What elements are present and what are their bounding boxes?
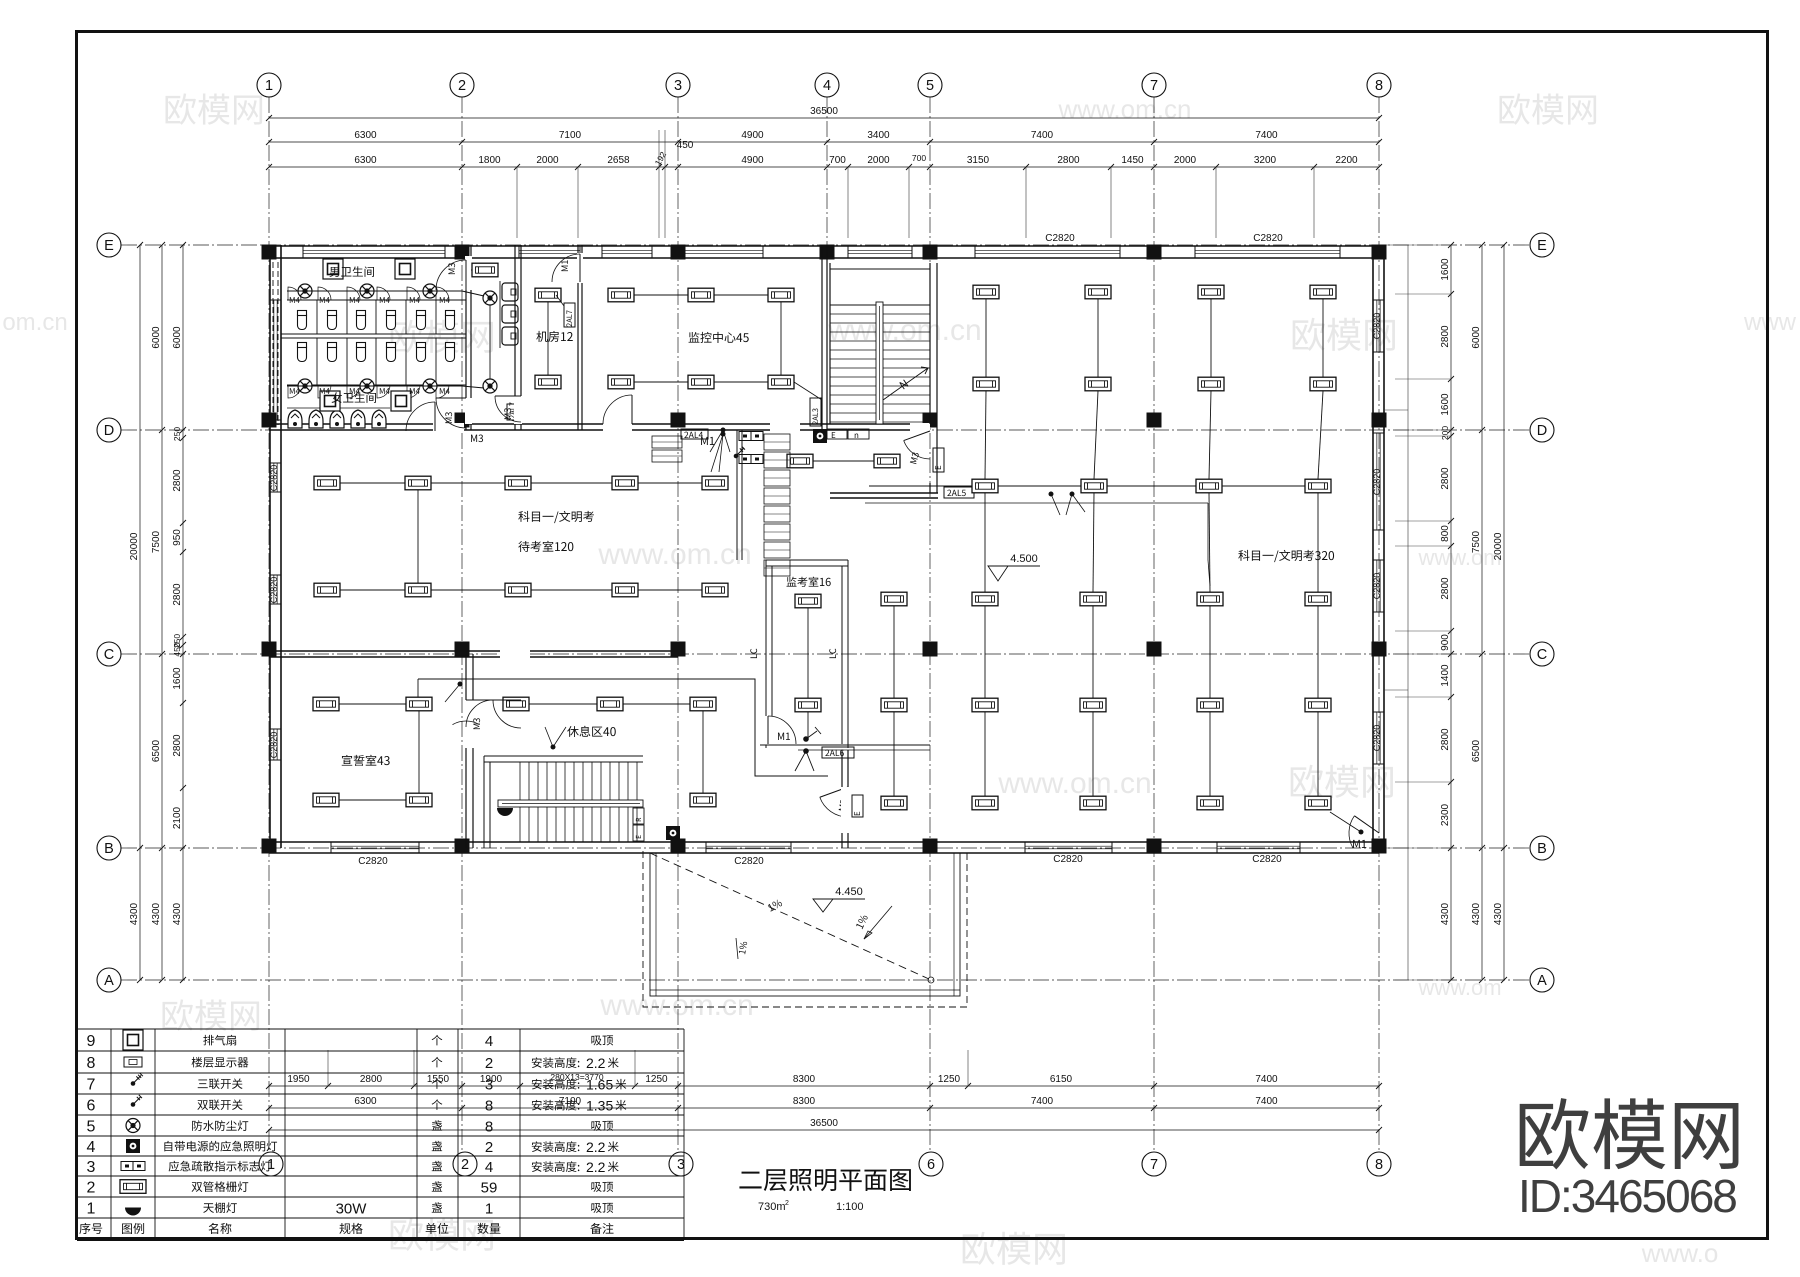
svg-text:C2820: C2820: [269, 465, 279, 492]
svg-text:6300: 6300: [354, 155, 377, 166]
svg-text:www: www: [1743, 309, 1797, 336]
svg-text:2: 2: [87, 1180, 96, 1197]
svg-text:6000: 6000: [1471, 326, 1482, 349]
dimension chains: [269, 117, 1379, 119]
svg-text:5: 5: [87, 1119, 96, 1136]
svg-text:C2820: C2820: [1372, 573, 1382, 600]
svg-text:B: B: [1537, 841, 1547, 857]
svg-text:1: 1: [87, 1201, 96, 1218]
svg-text:www.om: www.om: [1417, 545, 1501, 570]
svg-text:7500: 7500: [1471, 530, 1482, 553]
svg-text:7400: 7400: [1255, 1096, 1278, 1107]
svg-text:2: 2: [485, 1055, 493, 1072]
svg-text:2200: 2200: [1335, 155, 1358, 166]
svg-text:800: 800: [1440, 525, 1451, 542]
svg-text:2800: 2800: [1057, 155, 1080, 166]
svg-text:4900: 4900: [741, 155, 764, 166]
svg-text:7: 7: [87, 1077, 96, 1094]
svg-text:7500: 7500: [151, 530, 162, 553]
svg-text:2658: 2658: [607, 155, 630, 166]
svg-text:1250: 1250: [938, 1074, 961, 1085]
svg-text:www.o: www.o: [1641, 1238, 1719, 1268]
svg-text:D: D: [104, 423, 114, 439]
structural columns: [262, 245, 277, 260]
svg-text:8: 8: [485, 1119, 493, 1136]
hatched wall blocks near axis 3: [652, 436, 682, 448]
svg-text:2800: 2800: [172, 583, 183, 606]
svg-text:www.om.cn: www.om.cn: [599, 989, 753, 1022]
svg-text:6000: 6000: [172, 326, 183, 349]
svg-text:7400: 7400: [1031, 1096, 1054, 1107]
legend table (fixture schedule): [77, 1028, 684, 1030]
svg-text:2800: 2800: [1440, 467, 1451, 490]
svg-text:3: 3: [674, 78, 682, 94]
svg-text:1600: 1600: [1440, 393, 1451, 416]
svg-text:4300: 4300: [172, 902, 183, 925]
svg-text:2800: 2800: [1440, 728, 1451, 751]
svg-text:2: 2: [458, 78, 466, 94]
svg-text:4300: 4300: [1471, 902, 1482, 925]
svg-text:4900: 4900: [741, 130, 764, 141]
site watermark and ID: [1520, 1098, 1739, 1169]
monitoring center 45: [821, 245, 823, 430]
svg-text:6: 6: [927, 1157, 935, 1173]
svg-text:1.65: 1.65: [586, 1077, 613, 1093]
oath room 43 and rest area 40: [465, 654, 467, 848]
svg-text:C2820: C2820: [1372, 725, 1382, 752]
drawing title: [739, 1169, 911, 1191]
svg-text:2.2: 2.2: [586, 1159, 606, 1175]
svg-text:C: C: [104, 647, 114, 663]
svg-text:C2820: C2820: [1045, 233, 1075, 244]
svg-text:6500: 6500: [151, 739, 162, 762]
svg-text:2: 2: [461, 1157, 469, 1173]
svg-text:3: 3: [87, 1159, 96, 1176]
svg-text:9: 9: [87, 1033, 96, 1050]
svg-text:6: 6: [87, 1098, 96, 1115]
svg-text:6300: 6300: [354, 1096, 377, 1107]
svg-text:8: 8: [87, 1055, 96, 1072]
svg-text:4300: 4300: [1440, 902, 1451, 925]
svg-text:700: 700: [912, 153, 926, 163]
svg-text:4: 4: [485, 1159, 493, 1176]
svg-text:1:100: 1:100: [836, 1201, 864, 1213]
svg-text:5: 5: [926, 78, 934, 94]
svg-text:4.500: 4.500: [1010, 553, 1038, 565]
svg-text:8: 8: [1375, 1157, 1383, 1173]
svg-text:C2820: C2820: [1253, 233, 1283, 244]
svg-text:1: 1: [485, 1201, 493, 1218]
svg-text:D: D: [1537, 423, 1547, 439]
waiting room 120: [518, 511, 594, 523]
svg-text:1250: 1250: [645, 1074, 668, 1085]
svg-text:www.om.cn: www.om.cn: [597, 538, 751, 571]
wall along axis C: [269, 650, 678, 652]
corridor lights, exit signs, panel 2AL4: [787, 454, 813, 468]
svg-text:2300: 2300: [1440, 803, 1451, 826]
svg-text:1800: 1800: [478, 155, 501, 166]
svg-text:A: A: [1537, 973, 1547, 989]
svg-text:2800: 2800: [1440, 325, 1451, 348]
svg-text:20000: 20000: [129, 532, 140, 560]
svg-text:2000: 2000: [536, 155, 559, 166]
svg-text:20000: 20000: [1493, 532, 1504, 560]
svg-text:7400: 7400: [1255, 1074, 1278, 1085]
svg-text:8300: 8300: [793, 1096, 816, 1107]
svg-text:2: 2: [485, 1139, 493, 1156]
svg-text:7100: 7100: [559, 130, 582, 141]
svg-text:2100: 2100: [172, 806, 183, 829]
svg-text:2800: 2800: [1440, 577, 1451, 600]
svg-text:4: 4: [485, 1033, 493, 1050]
svg-text:4300: 4300: [151, 902, 162, 925]
svg-text:2000: 2000: [1174, 155, 1197, 166]
svg-text:4: 4: [823, 78, 831, 94]
svg-text:730m: 730m: [758, 1201, 786, 1213]
svg-text:36500: 36500: [810, 106, 838, 117]
svg-text:2.2: 2.2: [586, 1055, 606, 1071]
svg-text:200: 200: [1440, 426, 1450, 440]
svg-text:C2820: C2820: [1372, 313, 1382, 340]
svg-text:3200: 3200: [1254, 155, 1277, 166]
svg-text:8: 8: [1375, 78, 1383, 94]
svg-text:2: 2: [785, 1200, 789, 1207]
svg-text:1400: 1400: [1440, 664, 1451, 687]
toilet block (men/women washrooms): [465, 245, 467, 430]
svg-text:2.2: 2.2: [586, 1139, 606, 1155]
svg-text:30W: 30W: [336, 1201, 368, 1218]
svg-text:2800: 2800: [360, 1074, 383, 1085]
svg-text:7400: 7400: [1255, 130, 1278, 141]
svg-text:1600: 1600: [1440, 258, 1451, 281]
svg-text:7: 7: [1150, 1157, 1158, 1173]
svg-text:www.om.cn: www.om.cn: [1058, 94, 1192, 124]
svg-text:8: 8: [485, 1098, 493, 1115]
svg-text:E: E: [1537, 238, 1547, 254]
svg-text:3: 3: [485, 1077, 493, 1094]
svg-text:4300: 4300: [129, 902, 140, 925]
svg-text:1950: 1950: [287, 1074, 310, 1085]
svg-text:www.om.cn: www.om.cn: [827, 314, 981, 347]
svg-text:950: 950: [172, 529, 183, 546]
structural grid axis lines: [268, 97, 270, 1151]
svg-text:B: B: [104, 841, 114, 857]
axis bubbles 1-8 / A-E: [257, 73, 281, 97]
svg-text:om.cn: om.cn: [2, 309, 67, 336]
svg-text:E: E: [104, 238, 114, 254]
svg-text:C2820: C2820: [269, 577, 279, 604]
svg-text:C2820: C2820: [358, 856, 388, 867]
svg-text:6500: 6500: [1471, 739, 1482, 762]
svg-text:6000: 6000: [151, 326, 162, 349]
svg-text:1.35: 1.35: [586, 1098, 613, 1114]
svg-text:450: 450: [677, 140, 694, 151]
svg-text:2000: 2000: [867, 155, 890, 166]
svg-text:A: A: [104, 973, 114, 989]
svg-text:4: 4: [87, 1139, 96, 1156]
svg-text:59: 59: [481, 1180, 498, 1197]
corridor wall on axis D: [269, 423, 930, 425]
svg-text:www.om: www.om: [1417, 975, 1501, 1000]
svg-text:700: 700: [829, 155, 846, 166]
svg-text:www.om.cn: www.om.cn: [997, 767, 1151, 800]
svg-text:900: 900: [1440, 634, 1451, 651]
svg-text:450: 450: [172, 642, 182, 656]
svg-text:1550: 1550: [427, 1074, 450, 1085]
svg-text:4.450: 4.450: [835, 886, 863, 898]
svg-text:1600: 1600: [172, 667, 183, 690]
svg-text:C2820: C2820: [734, 856, 764, 867]
svg-text:3400: 3400: [867, 130, 890, 141]
svg-text:C2820: C2820: [269, 732, 279, 759]
svg-text:ID:3465068: ID:3465068: [1518, 1170, 1736, 1222]
svg-text:8300: 8300: [793, 1074, 816, 1085]
svg-text:36500: 36500: [810, 1118, 838, 1129]
lobby with grille light: [514, 245, 516, 430]
svg-text:6300: 6300: [354, 130, 377, 141]
invigilator room 16, panel 2AL6: [764, 434, 790, 450]
svg-text:C: C: [1537, 647, 1547, 663]
svg-text:7: 7: [1150, 78, 1158, 94]
svg-text:1: 1: [265, 78, 273, 94]
svg-text:250: 250: [172, 427, 182, 441]
svg-text:4300: 4300: [1493, 902, 1504, 925]
svg-text:C2820: C2820: [1252, 854, 1282, 865]
svg-text:3150: 3150: [967, 155, 990, 166]
exterior walls with C2820 windows: [269, 245, 1379, 247]
svg-text:2800: 2800: [172, 734, 183, 757]
svg-text:6150: 6150: [1050, 1074, 1073, 1085]
svg-text:2800: 2800: [172, 469, 183, 492]
equipment room 12: [577, 245, 579, 430]
south stair with ceiling lamp, canopy below: [484, 755, 643, 757]
exam hall 320 with grille light grid, panel 2AL5: [830, 492, 938, 494]
svg-text:1450: 1450: [1121, 155, 1144, 166]
svg-text:C2820: C2820: [1372, 469, 1382, 496]
north stairwell with N arrow: [829, 263, 831, 424]
svg-text:C2820: C2820: [1053, 854, 1083, 865]
svg-text:7400: 7400: [1031, 130, 1054, 141]
